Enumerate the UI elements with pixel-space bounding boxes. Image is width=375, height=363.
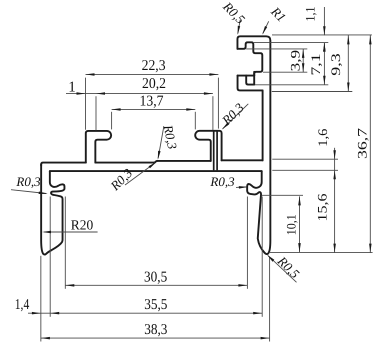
extension line 20,2 left bbox=[95, 96, 97, 130]
svg-text:1,6: 1,6 bbox=[315, 128, 330, 147]
svg-text:10,1: 10,1 bbox=[284, 214, 299, 235]
arrow 7,1 bottom bbox=[323, 76, 326, 85]
svg-text:R0,3: R0,3 bbox=[15, 174, 41, 189]
arrow 36,7 bottom bbox=[369, 244, 372, 253]
main body bottom edge bbox=[50, 170, 262, 172]
svg-text:35,5: 35,5 bbox=[144, 297, 167, 313]
arrow 38,3 left bbox=[41, 337, 50, 340]
arrow 13,7 left bbox=[112, 108, 121, 111]
extension line cavity roof (1,1 / 7,1) bbox=[254, 42, 328, 44]
extension line 38,3 left bbox=[40, 256, 42, 342]
arrow 3,9 bottom bbox=[302, 63, 305, 72]
leader R0,3 (top edge step, from lower left) bbox=[125, 163, 155, 185]
dimension line 36,7 bbox=[369, 35, 371, 253]
arrow 35,5 left / 1,4 right (pointing left at 50,2) bbox=[50, 312, 59, 315]
main body top edge (centre-right section) bbox=[157, 160, 211, 162]
extension line 38,3 right bbox=[269, 257, 271, 342]
dimension line 35,5 with tail for dim 1,4 bbox=[28, 312, 262, 314]
dimension line 10,1 bbox=[299, 196, 301, 252]
arrow R0,5 leader bbox=[238, 26, 241, 35]
svg-text:15,6: 15,6 bbox=[315, 193, 330, 222]
arrow 1,6 bottom (pointing up) bbox=[333, 170, 336, 179]
extension line 13,7 left bbox=[111, 112, 113, 130]
svg-text:38,3: 38,3 bbox=[144, 322, 167, 338]
head cavity: tooth1 underside, roof, shelf and nub bbox=[237, 42, 262, 75]
arrow R0,3 step upper leader bbox=[158, 151, 161, 160]
arrow 9,3 bottom bbox=[347, 83, 350, 92]
extension line 7,1 bottom bbox=[255, 84, 328, 86]
arrow 1,4 left (outside, pointing right) bbox=[32, 312, 41, 315]
arrow 20,2 right bbox=[204, 92, 213, 95]
head tooth2 outline and bottom edge bbox=[238, 76, 263, 91]
leader R0,3 (left flange notch) bbox=[11, 190, 46, 194]
arrow 22,3 right bbox=[209, 73, 218, 76]
arrow R1 leader bbox=[262, 26, 267, 35]
dimension line 38,3 bbox=[41, 337, 270, 339]
extension line head top (1,1 / 9,3 / 36,7) bbox=[272, 34, 372, 36]
svg-text:3,9: 3,9 bbox=[288, 50, 303, 72]
main body top edge (left section) with top-left corner bbox=[41, 163, 86, 166]
svg-text:1,4: 1,4 bbox=[15, 297, 30, 313]
screw slot left wall bbox=[213, 132, 215, 170]
leader R0,3 (right flange tooth) bbox=[236, 186, 246, 188]
leader R20 (left flange inner curve) bbox=[44, 231, 97, 233]
svg-text:13,7: 13,7 bbox=[140, 94, 164, 110]
arrow dim 1 (outside, pointing right) bbox=[77, 92, 86, 95]
arrow R20 leader bbox=[42, 231, 51, 233]
extension line 20,2 right bbox=[212, 96, 214, 130]
svg-text:20,2: 20,2 bbox=[142, 76, 166, 92]
dimension line 22,3 bbox=[86, 73, 219, 75]
extension line body top right (1,6 / 15,6) bbox=[272, 158, 338, 160]
arrow 1,1 bottom (outside, pointing up) bbox=[323, 43, 326, 52]
U-channel right wall, left-pointing finger and cap bbox=[195, 131, 221, 161]
arrow 1,6 top (pointing down) bbox=[333, 150, 336, 159]
dimension line 9,3 bbox=[347, 35, 349, 92]
extension line 3,9 top bbox=[246, 48, 307, 50]
arrow 30,5 left bbox=[65, 284, 74, 287]
dimension line 7,1 bbox=[323, 43, 325, 85]
svg-text:22,3: 22,3 bbox=[142, 58, 166, 74]
U-channel left wall and right-pointing finger bbox=[86, 131, 111, 163]
arrow R0,5 tip leader bbox=[267, 255, 274, 262]
arrow 9,3 top bbox=[347, 35, 350, 44]
arrow 10,1 bottom bbox=[298, 243, 301, 252]
leader R1 (head top-right corner) bbox=[263, 21, 269, 33]
dimension line 20,2 with tail for dim 1 bbox=[66, 93, 213, 95]
extension line body bottom right (1,6) bbox=[272, 169, 338, 171]
extension line 10,1 top bbox=[262, 194, 303, 196]
extension line flange tip (10,1 / 15,6 / 36,7) bbox=[269, 252, 373, 254]
arrow 38,3 right bbox=[261, 337, 270, 340]
dimension line 3,9 bbox=[302, 49, 304, 72]
dimension line 30,5 bbox=[65, 284, 247, 286]
extension line 30,5 right bbox=[246, 197, 248, 289]
svg-text:R0,3: R0,3 bbox=[209, 174, 235, 189]
extension line 35,5 left bbox=[49, 197, 51, 317]
arrow 7,1 top bbox=[323, 43, 326, 52]
extension line 30,5 left bbox=[64, 197, 66, 289]
svg-text:1,1: 1,1 bbox=[303, 7, 318, 22]
arrow 36,7 top bbox=[369, 35, 372, 44]
svg-text:R20: R20 bbox=[71, 218, 93, 233]
dimension line 1,1 upper tail bbox=[323, 7, 325, 35]
leader R0,3 (top edge step, from above) bbox=[158, 127, 164, 159]
head tooth2 top edge (slot mouth bottom) bbox=[238, 75, 255, 77]
arrow 13,7 right bbox=[186, 108, 195, 111]
arrow 15,6 bottom bbox=[333, 244, 336, 253]
main body top edge (centre-left section) bbox=[95, 162, 154, 164]
extension line 35,5 right bbox=[261, 197, 263, 317]
leader R0,5 (right flange tip) bbox=[268, 256, 297, 283]
main body top edge (right section) bbox=[222, 159, 263, 161]
arrow R0,3 top-right leader bbox=[222, 122, 229, 129]
head inner step below tooth2 bbox=[246, 72, 254, 85]
extension line 22,3 left bbox=[85, 78, 87, 130]
profile outline: head cap, right stem and right flange (outer contour) bbox=[237, 36, 270, 254]
svg-text:36,7: 36,7 bbox=[355, 127, 370, 159]
svg-text:9,3: 9,3 bbox=[328, 53, 343, 76]
dimension line 1,6 and 15,6 (shared) bbox=[334, 148, 336, 253]
arrow 10,1 top bbox=[298, 196, 301, 205]
extension line 3,9 bottom bbox=[263, 71, 307, 73]
screw slot right wall bbox=[216, 132, 218, 170]
leader R0,5 (head top-left corner) bbox=[238, 20, 240, 34]
leader R0,3 (U-channel right wall corner) bbox=[223, 104, 249, 129]
arrow 20,2 left bbox=[96, 92, 105, 95]
arrow 3,9 top bbox=[302, 49, 305, 58]
svg-text:30,5: 30,5 bbox=[144, 269, 167, 285]
svg-text:7,1: 7,1 bbox=[308, 54, 323, 76]
arrow R0,3 left flange leader bbox=[39, 192, 48, 195]
stem left line bbox=[262, 90, 264, 160]
arrow R0,3 step lower leader bbox=[149, 162, 157, 168]
arrow 30,5 right bbox=[238, 284, 247, 287]
svg-text:1: 1 bbox=[68, 80, 76, 96]
left flange: outer edge, R20 tip sweep, fin, notch and tooth bbox=[41, 165, 64, 255]
dimension line 1,1 lower tail bbox=[323, 43, 325, 50]
extension line 13,7 right bbox=[194, 112, 196, 130]
main body top edge step R0.3 bbox=[154, 161, 157, 163]
arrow 35,5 right bbox=[253, 312, 262, 315]
extension line 22,3 right bbox=[217, 78, 219, 129]
arrow R0,3 right flange leader bbox=[239, 186, 248, 189]
arrow 1,1 top (outside, pointing down) bbox=[323, 26, 326, 35]
dimension line 13,7 bbox=[112, 108, 196, 110]
arrow 22,3 left bbox=[86, 73, 95, 76]
extension line 9,3 bottom bbox=[272, 91, 353, 93]
